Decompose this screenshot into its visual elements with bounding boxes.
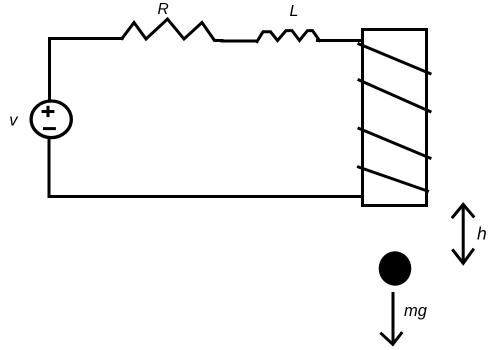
wire bottom horizontal [49, 195, 362, 198]
inductor L [257, 31, 320, 42]
svg-text:R: R [158, 1, 169, 18]
svg-text:h: h [477, 224, 487, 244]
wire top-left horizontal [50, 37, 123, 40]
height arrow h (double-headed) [462, 205, 465, 263]
hatch line 1 [359, 44, 430, 74]
ball mass [379, 251, 412, 285]
wire inductor to electromagnet [318, 39, 362, 42]
voltage source minus sign [43, 127, 56, 130]
hatch line 4 [359, 167, 428, 191]
force arrow mg (down) [392, 294, 395, 344]
wire between resistor and inductor [222, 40, 256, 43]
electromagnet core (hatched rectangle) [363, 30, 427, 206]
resistor R [122, 19, 222, 41]
svg-text:v: v [9, 111, 19, 129]
voltage source V1 circle [31, 101, 71, 138]
voltage source plus sign [42, 106, 55, 117]
svg-text:L: L [290, 3, 299, 20]
svg-text:mg: mg [404, 302, 428, 320]
wire left vertical (source to top wire) [48, 39, 51, 100]
hatch line 2 [359, 80, 430, 112]
hatch line 3 [359, 129, 430, 159]
wire source bottom vertical [48, 141, 51, 197]
